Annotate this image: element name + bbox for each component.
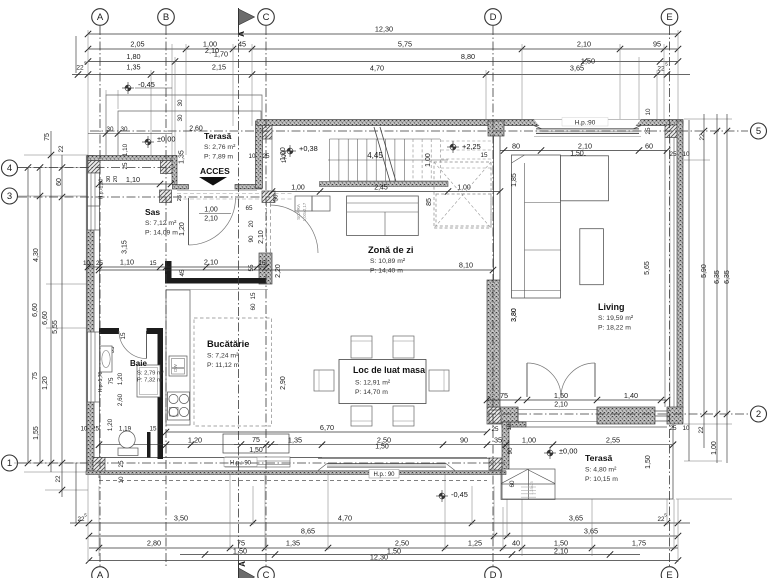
grid bubble 2 right [751, 406, 767, 422]
svg-text:-0,45: -0,45 [138, 80, 155, 89]
svg-text:2,10: 2,10 [578, 141, 592, 150]
svg-text:6,35: 6,35 [714, 270, 721, 284]
svg-text:1,00: 1,00 [457, 185, 471, 192]
dining-living partition diag pier bottom [489, 410, 501, 423]
staircase treads [328, 139, 448, 181]
svg-text:Baie: Baie [130, 359, 147, 368]
axis line 1 [18, 462, 505, 464]
living sofa horizontal part [561, 156, 609, 201]
svg-text:5,75: 5,75 [398, 40, 412, 49]
svg-text:P: 11,12 m: P: 11,12 m [207, 362, 240, 369]
svg-text:1,00: 1,00 [204, 207, 218, 214]
svg-text:2,90: 2,90 [280, 376, 287, 390]
overhang dashed bottom [98, 474, 100, 481]
svg-text:1,35: 1,35 [286, 539, 300, 548]
svg-text:1,20: 1,20 [188, 436, 202, 445]
svg-text:20: 20 [248, 220, 255, 228]
south wall label H.p.90 dining [369, 470, 399, 479]
svg-text:DW: DW [173, 364, 178, 372]
svg-text:3,50: 3,50 [174, 514, 188, 523]
living double door leaves and arcs [517, 407, 519, 424]
svg-text:A: A [238, 561, 247, 567]
svg-text:1,20: 1,20 [42, 376, 49, 390]
svg-text:10: 10 [83, 260, 91, 267]
svg-text:4,70: 4,70 [370, 64, 384, 73]
axis line 5 [90, 130, 748, 132]
porch threshold line [177, 190, 257, 192]
porch pier at B diag [161, 161, 176, 174]
svg-text:P: 7,32 m: P: 7,32 m [137, 378, 162, 384]
svg-text:60: 60 [509, 480, 516, 488]
svg-text:3,65: 3,65 [570, 64, 584, 73]
svg-text:22: 22 [55, 475, 62, 483]
grid bubble C bottom [258, 567, 275, 578]
bottom dim row 4 [180, 554, 640, 556]
living south wall segment east [667, 407, 683, 424]
west wall window at corner [88, 173, 100, 206]
grid bubble A bottom [92, 567, 109, 578]
svg-text:1,00: 1,00 [425, 153, 432, 167]
svg-text:10: 10 [118, 476, 125, 484]
svg-text:2,45: 2,45 [374, 185, 388, 192]
svg-text:2,80: 2,80 [147, 539, 161, 548]
svg-text:B: B [163, 12, 169, 23]
svg-text:1,00: 1,00 [711, 441, 718, 455]
grid bubble B top [158, 9, 175, 26]
svg-text:H.p.-1,00: H.p.-1,00 [99, 179, 105, 200]
svg-text:D: D [490, 570, 497, 578]
svg-text:S: 7,12 m²: S: 7,12 m² [145, 220, 177, 227]
svg-text:1,00: 1,00 [281, 150, 288, 163]
svg-text:3,65: 3,65 [584, 527, 598, 536]
svg-text:6,70: 6,70 [320, 423, 334, 432]
svg-text:S: 4,80 m²: S: 4,80 m² [585, 467, 617, 474]
svg-text:45: 45 [179, 269, 186, 277]
section flag bottom [239, 568, 255, 578]
svg-text:E: E [666, 12, 672, 23]
svg-text:1,50: 1,50 [249, 447, 263, 454]
svg-text:90: 90 [248, 235, 255, 243]
svg-text:+0,38: +0,38 [299, 144, 318, 153]
interior bottom dim row [99, 444, 673, 446]
svg-text:2,60: 2,60 [117, 393, 124, 406]
axis line A [99, 26, 101, 566]
baie washbasin [100, 346, 112, 372]
svg-text:E: E [666, 570, 672, 578]
svg-text:1: 1 [7, 458, 12, 469]
svg-text:D: D [490, 12, 497, 23]
svg-text:2,10: 2,10 [554, 402, 568, 409]
svg-text:H.p.: 90: H.p.: 90 [230, 461, 252, 467]
svg-text:2,55: 2,55 [606, 436, 620, 445]
svg-text:2,05: 2,05 [130, 40, 144, 49]
staircase railing strip [320, 182, 449, 187]
grid bubble 1 left [2, 455, 18, 471]
level marker -0,45 top [122, 82, 134, 94]
C wall door arc to living area [270, 205, 318, 253]
south wall corner pier diag east [489, 458, 502, 470]
svg-text:1,25: 1,25 [468, 539, 482, 548]
svg-text:Zonă de zi: Zonă de zi [368, 245, 413, 255]
bottom extension lines [88, 473, 678, 562]
baie door leaf and arc [146, 331, 148, 359]
east wall inner face lines [664, 138, 666, 408]
svg-text:S: 10,89 m²: S: 10,89 m² [370, 258, 406, 265]
porch left wall thin [172, 156, 177, 185]
baie east partition wall [158, 328, 164, 459]
svg-text:1,20: 1,20 [117, 372, 124, 385]
south exterior wall interior face [93, 457, 487, 459]
svg-text:Sas: Sas [145, 207, 160, 217]
svg-text:Living: Living [598, 302, 625, 312]
terrace outline [502, 424, 673, 499]
south wall window 3 dining [322, 458, 487, 468]
svg-text:±0,00: ±0,00 [559, 447, 577, 456]
svg-text:1,50: 1,50 [645, 455, 652, 469]
svg-text:15: 15 [149, 260, 157, 267]
east exterior wall [677, 121, 683, 408]
C wall stipple lower [259, 253, 272, 284]
svg-text:Loc de luat masa: Loc de luat masa [353, 365, 425, 375]
north exterior wall [257, 120, 683, 126]
level marker -0,45 bottom [436, 490, 448, 502]
svg-text:1,50: 1,50 [554, 391, 568, 400]
svg-text:A: A [97, 570, 104, 578]
svg-text:P: 7,89 m: P: 7,89 m [204, 154, 233, 161]
baie north partition wall [99, 328, 119, 334]
svg-text:1,70: 1,70 [214, 50, 228, 59]
bottom dim row 1 [70, 522, 690, 524]
svg-text:10: 10 [682, 425, 690, 432]
svg-text:1,85: 1,85 [511, 173, 518, 187]
svg-text:22: 22 [58, 145, 65, 153]
svg-text:C: C [263, 570, 270, 578]
svg-text:30: 30 [177, 114, 184, 122]
svg-text:1,00x2,17: 1,00x2,17 [302, 202, 307, 221]
svg-text:45: 45 [238, 40, 246, 49]
svg-text:55: 55 [248, 264, 255, 272]
south wall label H.p.90 kitchen [224, 458, 257, 467]
svg-text:22: 22 [699, 133, 706, 141]
west exterior wall [87, 156, 94, 472]
grid bubble D top [485, 9, 502, 26]
left dim column lines [27, 168, 29, 464]
west wall inner face line [99, 161, 101, 458]
living sofa vertical part [512, 155, 561, 298]
svg-text:4: 4 [7, 163, 12, 174]
dining 6,70 dim [166, 431, 487, 433]
stair cabinet boxes [295, 196, 312, 211]
south exterior wall stipple strip [86, 471, 506, 475]
grid bubble D bottom [485, 567, 502, 578]
svg-text:8,65: 8,65 [301, 527, 315, 536]
grid bubble C top [258, 9, 275, 26]
svg-text:90: 90 [460, 436, 468, 445]
sas dim row 1,10 [99, 183, 171, 185]
svg-text:2,10: 2,10 [258, 230, 265, 244]
svg-text:8,80: 8,80 [461, 52, 475, 61]
living top dim row 80 2,10 60 [500, 150, 667, 152]
svg-text:20: 20 [113, 176, 119, 182]
svg-text:60: 60 [645, 141, 653, 150]
svg-text:H.p.: 90: H.p.: 90 [373, 472, 395, 478]
svg-text:S: 7,24 m²: S: 7,24 m² [207, 353, 239, 360]
top dim row 2 [88, 48, 678, 50]
svg-text:P: 14,70 m: P: 14,70 m [355, 389, 388, 396]
svg-text:3: 3 [7, 191, 12, 202]
svg-text:6,60: 6,60 [42, 311, 49, 325]
top dim row 3 [88, 61, 678, 63]
section flag top [239, 9, 255, 25]
svg-text:35: 35 [494, 436, 502, 445]
svg-text:H.p.:90: H.p.:90 [575, 120, 596, 127]
svg-text:3,65: 3,65 [569, 514, 583, 523]
sas north wall bandlet [173, 185, 189, 190]
svg-text:1,00: 1,00 [291, 185, 305, 192]
porch corner pier diag west [88, 161, 100, 174]
svg-text:60: 60 [56, 178, 63, 186]
svg-text:5: 5 [756, 126, 761, 137]
svg-text:10: 10 [80, 426, 88, 433]
terrace south wall top band [502, 422, 526, 427]
svg-text:80: 80 [512, 141, 520, 150]
svg-text:2,10: 2,10 [554, 547, 568, 556]
svg-text:2: 2 [756, 409, 761, 420]
north-east corner pier diag [665, 125, 679, 138]
svg-text:3,80: 3,80 [511, 308, 518, 322]
svg-text:1,23x25: 1,23x25 [530, 481, 534, 495]
right extension lines [676, 119, 732, 499]
C wall pier diag mid [262, 191, 275, 203]
living south wall segment west [500, 407, 518, 424]
kitchen counter back edge line [166, 289, 268, 291]
svg-text:1,50: 1,50 [375, 444, 389, 451]
baie shower tray [137, 365, 160, 397]
bottom dim row 3 [89, 547, 678, 549]
svg-text:1,20: 1,20 [179, 222, 186, 236]
grid bubble E bottom [661, 567, 678, 578]
svg-text:75: 75 [32, 372, 39, 380]
north window label H.p.90 [562, 118, 608, 127]
svg-text:H.p.-1,70: H.p.-1,70 [98, 372, 104, 393]
axis line 2 [487, 413, 748, 415]
svg-text:P: 10,15 m: P: 10,15 m [585, 476, 618, 483]
staircase break line [374, 127, 391, 185]
svg-text:SCARA: SCARA [296, 203, 301, 220]
axis line 4 [18, 167, 175, 169]
svg-text:8,10: 8,10 [459, 261, 473, 270]
svg-text:C: C [263, 12, 270, 23]
svg-text:75: 75 [108, 377, 115, 385]
svg-text:22: 22 [698, 426, 705, 434]
kitchen sink [169, 356, 187, 376]
svg-text:2,15: 2,15 [212, 63, 226, 72]
level marker +-0,00 terrace [544, 447, 556, 459]
svg-text:2,10: 2,10 [577, 40, 591, 49]
dining chair right [429, 370, 449, 391]
stairs landing dashed [434, 162, 491, 228]
svg-text:5,65: 5,65 [644, 261, 651, 275]
svg-text:10: 10 [682, 151, 690, 158]
stairs dim 2,45 row [272, 191, 500, 193]
grid bubble E top [661, 9, 678, 26]
C wall pier diag top [263, 125, 273, 139]
svg-text:5,90: 5,90 [701, 264, 708, 278]
svg-text:10: 10 [645, 108, 652, 116]
level marker +0,38 stairs [284, 145, 296, 157]
svg-text:25: 25 [122, 162, 129, 170]
svg-text:4,30: 4,30 [33, 248, 40, 262]
svg-text:1,20: 1,20 [107, 418, 114, 431]
svg-text:1,35: 1,35 [126, 63, 140, 72]
svg-text:30: 30 [106, 176, 112, 182]
svg-text:-0,45: -0,45 [451, 490, 468, 499]
axis line B [165, 26, 167, 566]
svg-text:15: 15 [258, 260, 266, 267]
svg-text:25: 25 [669, 151, 677, 158]
svg-text:1,50: 1,50 [233, 547, 247, 556]
svg-text:15: 15 [149, 426, 157, 433]
west wall window Baie H.p.1,70 [88, 332, 100, 402]
left extension lines [14, 155, 88, 490]
svg-text:30: 30 [120, 126, 128, 133]
living door sill lines [518, 409, 597, 411]
svg-text:6,35: 6,35 [724, 270, 731, 284]
svg-text:2,60: 2,60 [189, 126, 203, 133]
svg-text:P: 18,22 m: P: 18,22 m [598, 325, 631, 332]
porch step dashed lines [177, 193, 292, 195]
svg-text:1,75: 1,75 [632, 539, 646, 548]
wardrobe dashed under stairs [436, 194, 491, 226]
svg-text:90: 90 [507, 447, 514, 455]
dining chairs bottom [351, 406, 372, 426]
svg-text:75: 75 [500, 391, 508, 400]
svg-text:6,60: 6,60 [32, 303, 39, 317]
porch canopy outline [106, 95, 262, 155]
svg-text:22: 22 [76, 65, 84, 72]
section line A-A [238, 28, 240, 566]
top extension lines [88, 30, 678, 155]
kitchen partition stub [165, 261, 172, 284]
C wall stipple upper [256, 121, 263, 188]
grid bubble 3 left [2, 188, 18, 204]
top dim row 4 [72, 74, 690, 76]
terrace left wall [502, 422, 509, 469]
right dim column lines [688, 120, 690, 461]
svg-text:Bucătărie: Bucătărie [207, 339, 249, 349]
svg-text:P: 14,09 m: P: 14,09 m [145, 230, 178, 237]
C wall inner face line [271, 139, 273, 190]
svg-text:S: 2,76 m²: S: 2,76 m² [204, 144, 236, 151]
svg-text:Terasă: Terasă [585, 453, 613, 463]
svg-text:30: 30 [177, 99, 184, 107]
dining-living partition wall lower [487, 280, 500, 407]
svg-text:2,10: 2,10 [204, 258, 218, 267]
svg-text:+2,25: +2,25 [462, 142, 481, 151]
living south wall segment middle [597, 407, 655, 424]
svg-text:ACCES: ACCES [200, 166, 230, 176]
baie toilet [118, 448, 138, 456]
svg-text:4,45: 4,45 [367, 151, 383, 160]
svg-text:12,30: 12,30 [375, 25, 393, 34]
svg-text:3,15: 3,15 [122, 240, 129, 254]
svg-text:75: 75 [44, 133, 51, 141]
dining chairs top [351, 336, 372, 358]
svg-text:2,20: 2,20 [275, 264, 282, 278]
terrace exterior stair [501, 469, 555, 500]
svg-text:65: 65 [245, 205, 253, 212]
sas north wall right pier [235, 185, 262, 190]
svg-text:1,80: 1,80 [126, 52, 140, 61]
svg-text:50: 50 [273, 194, 280, 202]
zona dim 8,10 row [99, 269, 493, 271]
svg-text:15: 15 [480, 152, 488, 159]
staircase dashed upper treads [413, 139, 493, 181]
svg-text:1,10: 1,10 [122, 143, 129, 156]
top dim row 12,30 [88, 33, 678, 35]
axis line 3 [18, 196, 270, 198]
axis line D [492, 26, 494, 566]
south wall window 2 kitchen [225, 457, 290, 467]
svg-text:S: 19,59 m²: S: 19,59 m² [598, 315, 634, 322]
svg-text:P: 14,40 m: P: 14,40 m [370, 268, 403, 275]
svg-text:25: 25 [118, 460, 125, 468]
living coffee table [580, 229, 604, 285]
grid bubble 4 left [2, 160, 18, 176]
kitchen stove [168, 392, 190, 420]
C wall opening dashed [266, 203, 268, 253]
svg-text:1,10: 1,10 [126, 175, 140, 184]
svg-text:A: A [97, 12, 104, 23]
axis line C [265, 26, 267, 566]
south wall corner pier diag west [93, 458, 105, 472]
level marker +-0,00 porch [142, 136, 154, 148]
svg-text:60: 60 [250, 303, 257, 311]
bottom dim row 12,30 [89, 560, 678, 562]
west wall window Sas [88, 197, 100, 230]
svg-text:40: 40 [512, 539, 520, 548]
kitchen north partition wall [166, 278, 266, 284]
svg-text:1,10: 1,10 [120, 258, 134, 267]
svg-text:2,10: 2,10 [204, 216, 218, 223]
svg-text:1,50: 1,50 [387, 547, 401, 556]
svg-text:75: 75 [252, 437, 260, 444]
north wall pier at D [488, 121, 504, 136]
svg-text:12,30: 12,30 [370, 553, 388, 562]
svg-text:S: 12,91 m²: S: 12,91 m² [355, 380, 391, 387]
svg-text:1,40: 1,40 [624, 391, 638, 400]
svg-text:1,35: 1,35 [288, 436, 302, 445]
svg-text:5,55: 5,55 [52, 320, 59, 334]
svg-text:85: 85 [426, 198, 433, 206]
kitchen top dim row [88, 266, 266, 268]
svg-text:1,00: 1,00 [522, 436, 536, 445]
svg-text:Terasă: Terasă [204, 131, 232, 141]
svg-text:15: 15 [120, 332, 127, 340]
grid bubble 5 right [751, 123, 767, 139]
kitchen counter west [166, 290, 190, 425]
svg-text:1,35: 1,35 [179, 150, 186, 164]
sas pier diag below B [160, 190, 172, 203]
living south window [655, 410, 669, 412]
north window band [536, 129, 639, 134]
living south dim row [487, 399, 667, 401]
entry door leaf and arc [188, 198, 190, 245]
axis line E [669, 26, 671, 566]
north porch parapet wall [88, 156, 177, 161]
kitchen window dim box 75 1,50 [223, 434, 289, 453]
level marker +2,25 landing [447, 141, 459, 153]
